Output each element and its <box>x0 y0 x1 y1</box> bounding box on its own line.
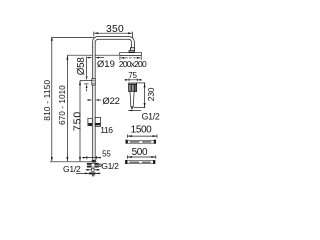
svg-text:Ø22: Ø22 <box>102 96 119 107</box>
svg-text:810 - 1150: 810 - 1150 <box>42 79 52 120</box>
svg-text:500: 500 <box>132 147 148 158</box>
svg-text:G1/2: G1/2 <box>101 161 119 171</box>
svg-text:G1/2: G1/2 <box>63 164 81 174</box>
svg-text:350: 350 <box>106 24 124 35</box>
svg-text:230: 230 <box>146 87 156 101</box>
svg-text:55: 55 <box>102 150 111 159</box>
svg-text:Ø58: Ø58 <box>76 57 87 76</box>
svg-text:670 - 1010: 670 - 1010 <box>58 85 67 125</box>
svg-text:1500: 1500 <box>131 125 152 136</box>
svg-text:G1/2: G1/2 <box>142 112 160 122</box>
svg-text:75: 75 <box>128 71 137 80</box>
svg-text:200x200: 200x200 <box>119 59 147 69</box>
svg-text:750: 750 <box>71 111 83 131</box>
svg-text:116: 116 <box>100 125 113 135</box>
svg-text:Ø19: Ø19 <box>97 59 115 70</box>
